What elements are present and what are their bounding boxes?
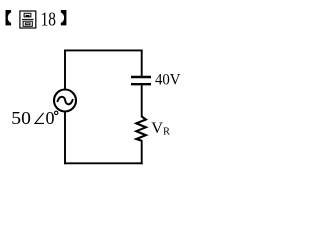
- figure label left bracket 【: [6, 10, 12, 25]
- wire right lower: [141, 140, 143, 164]
- wire right upper: [141, 50, 143, 77]
- svg-text:R: R: [163, 126, 170, 137]
- wire left upper: [64, 50, 66, 90]
- capacitor C1 top plate: [131, 76, 151, 78]
- wire right middle: [141, 85, 143, 117]
- svg-text:40V: 40V: [155, 72, 181, 89]
- ac source V1: [54, 90, 76, 112]
- wire top: [64, 49, 143, 51]
- svg-text:50: 50: [11, 108, 31, 128]
- wire left lower: [64, 112, 66, 165]
- wire bottom: [64, 162, 143, 164]
- svg-text:0: 0: [46, 108, 55, 128]
- resistor R1: [136, 117, 146, 141]
- capacitor C1 bottom plate: [131, 83, 151, 85]
- svg-text:V: V: [151, 119, 163, 137]
- svg-text:18: 18: [41, 10, 56, 31]
- figure label 圖 glyph: [20, 11, 36, 28]
- figure label right bracket 】: [61, 10, 67, 25]
